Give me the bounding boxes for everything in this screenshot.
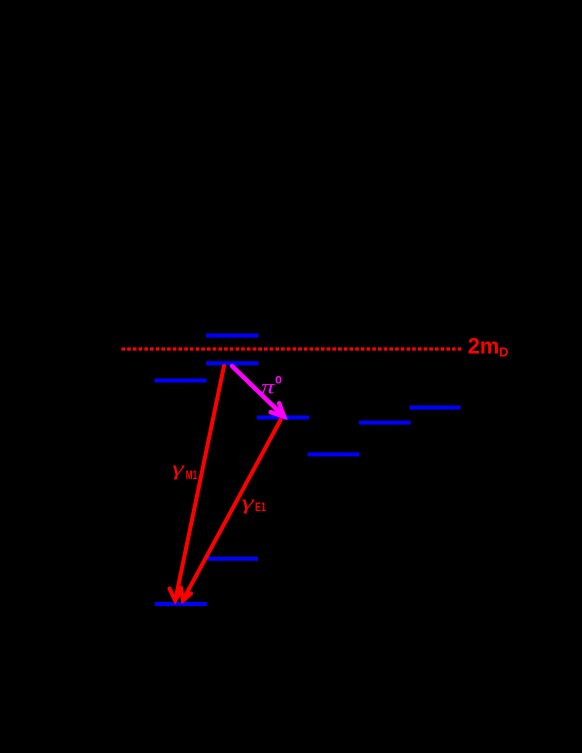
svg-text:γ: γ — [242, 490, 255, 514]
level psi(2S) — [206, 361, 259, 365]
level J/psi — [206, 557, 258, 561]
arrow pi0 from psi(2S) to h_c — [232, 366, 284, 417]
level h_c — [257, 416, 309, 420]
svg-text:M1: M1 — [186, 470, 198, 482]
svg-text:2m: 2m — [468, 334, 500, 359]
svg-text:0: 0 — [275, 375, 282, 387]
level psi(3770) — [206, 334, 259, 338]
label gamma_M1 — [172, 456, 198, 482]
threshold 2mD dotted line — [122, 347, 463, 350]
svg-text:E1: E1 — [255, 502, 266, 514]
arrow gamma_E1 from h_c to eta_c — [181, 420, 281, 601]
level eta_c(2S) — [155, 379, 207, 383]
level chi_c2 — [410, 406, 461, 410]
level chi_c1 — [359, 421, 411, 425]
label 2mD — [468, 334, 509, 360]
level chi_c0 — [308, 452, 360, 456]
svg-text:γ: γ — [172, 456, 185, 480]
label gamma_E1 — [242, 490, 267, 514]
svg-text:D: D — [499, 345, 508, 360]
arrow gamma_M1 from psi(2S) to eta_c — [170, 366, 225, 601]
label pi0 — [261, 375, 282, 399]
level eta_c ground state — [155, 602, 207, 606]
svg-text:π: π — [261, 375, 275, 399]
